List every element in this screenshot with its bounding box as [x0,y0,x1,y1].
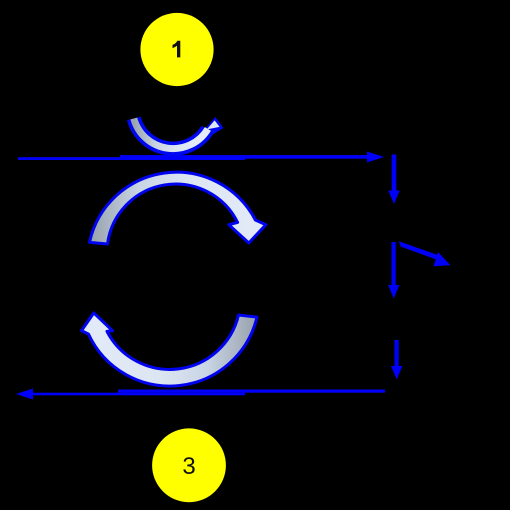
arrowhead: bottom horizontal arrow pointing left [16,389,33,400]
curved ribbon arrow: big top (clockwise) [90,172,266,244]
arrowhead: top horizontal arrow pointing right [367,152,384,163]
label digit 1 [173,41,181,58]
wire: bottom horizontal line right segment [118,390,385,393]
wire: right vertical arrow 2 (down) [392,242,396,286]
wire: top horizontal line left segment [18,157,245,160]
node: yellow circle 1 [140,13,213,86]
node: yellow circle 3 [152,428,226,502]
svg-text:3: 3 [182,453,195,480]
curved ribbon arrow: big bottom (counter-clockwise) [82,313,258,386]
wire: diagonal arrow to lower right [399,241,441,261]
wire: right vertical arrow 3 (down) [395,340,399,367]
curved ribbon arrow: small top (under circle 1) [134,117,224,149]
wire: bottom horizontal line left segment [28,393,245,396]
wire: top horizontal line right segment [120,155,369,159]
wire: right vertical arrow 1 (down) [392,155,397,192]
